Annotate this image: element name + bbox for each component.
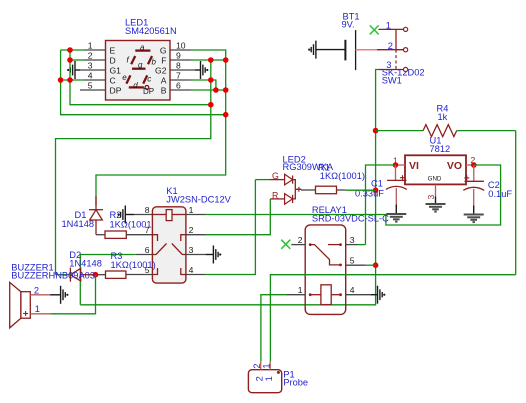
svg-text:2: 2 — [34, 286, 39, 296]
wire LED1 pin7 with jog to pin6 — [191, 80, 216, 90]
ground GND2 (right of LED1 pin8, pointing right) — [195, 61, 208, 79]
svg-text:1k: 1k — [438, 112, 448, 122]
wire left vertical bus x=60.6 — [61, 50, 226, 115]
wire left vertical bus x=70 — [70, 50, 211, 105]
LED2 common — [293, 180, 296, 199]
connector P1 Probe — [248, 361, 308, 392]
ground GND3 (battery minus, pointing left) — [308, 41, 345, 59]
svg-text:a: a — [140, 43, 145, 52]
node RELAY1 pin5 tap — [373, 262, 379, 268]
ground GND10 (right of RELAY1 pin4, pointing right) — [371, 286, 385, 304]
node U1 VO junction — [471, 162, 477, 168]
wire LED2 G stub left — [255, 179, 269, 181]
wire RELAY1 pin5 to rail — [366, 264, 376, 266]
svg-text:2: 2 — [252, 363, 262, 368]
SW1 common bar pins1-2 — [395, 29, 397, 49]
wire R4 right end down to probe net — [515, 131, 517, 275]
SW1 pin 3 — [379, 69, 404, 71]
wire RELAY1 pin1 to probe pin2 — [261, 295, 287, 362]
U1 pin 3 GND — [435, 184, 437, 196]
svg-text:JW2SN-DC12V: JW2SN-DC12V — [166, 195, 231, 205]
LED1 pin 2 D — [84, 50, 116, 65]
svg-text:A: A — [161, 76, 167, 86]
svg-text:5: 5 — [88, 80, 93, 90]
svg-text:9: 9 — [176, 50, 181, 60]
P1 pin 1 — [269, 361, 271, 369]
U1 pin 2 VO — [466, 164, 474, 166]
svg-text:D: D — [110, 56, 116, 66]
segment e — [126, 75, 130, 83]
LED1 pin 10 G — [160, 40, 191, 55]
wire right bus A x=210.8 down to jog — [56, 60, 211, 275]
RELAY1 pin 2 — [291, 244, 305, 246]
svg-text:c: c — [147, 74, 151, 83]
SW1 actuator dashed pins2-3 — [395, 50, 397, 70]
resistor R3 1KΩ(1001) — [96, 251, 156, 279]
wire LED1 pin2 stub join — [70, 59, 85, 61]
svg-text:E: E — [110, 46, 116, 56]
LED1 pin 3 G1 — [80, 60, 121, 75]
resistor R1 1KΩ(1001) — [301, 162, 376, 193]
wire LED1 pin10 to right bus B — [96, 50, 226, 206]
svg-text:VI: VI — [409, 160, 419, 172]
capacitor C1 0.33uF — [355, 165, 407, 214]
wire K1 pin4 up to LED2 G — [206, 180, 256, 275]
K1 coil — [152, 214, 166, 216]
ground GND6 (below C2, pointing down) — [464, 215, 484, 223]
no-connect X at RELAY1 pin 2 — [281, 240, 290, 249]
svg-text:DP: DP — [143, 87, 154, 96]
wire LED1 pin1 to left bus — [61, 49, 85, 51]
node R1 tap — [373, 187, 379, 193]
svg-text:SW1: SW1 — [382, 75, 402, 85]
segment f — [131, 56, 135, 64]
svg-text:9V.: 9V. — [342, 20, 355, 30]
wire LED1 pin4 stub join — [61, 79, 85, 81]
K1 left contact set — [152, 235, 157, 241]
ground GND7 (left of K1 pin8, pointing left) — [117, 206, 134, 224]
svg-text:2: 2 — [388, 41, 393, 51]
resistor R2 1KΩ(1001) — [96, 210, 155, 238]
buzzer pin 2 — [30, 294, 50, 296]
svg-text:8: 8 — [145, 205, 150, 215]
wire SW1 pin3 down the main +9V rail — [80, 70, 378, 305]
svg-text:3: 3 — [350, 235, 355, 245]
node D2/R3/buzzer junction — [93, 272, 99, 278]
ground GND5 (below C1, pointing down) — [386, 214, 406, 222]
svg-text:1: 1 — [261, 363, 271, 368]
svg-text:GND: GND — [428, 176, 442, 183]
K1 pin 1 — [186, 214, 206, 216]
K1 pin 3 — [186, 254, 206, 256]
svg-text:G2: G2 — [155, 66, 167, 76]
segment DP circle — [145, 86, 149, 90]
SW1 pin 2 — [377, 49, 403, 51]
svg-text:4: 4 — [88, 70, 93, 80]
LED1 pin 9 F — [161, 50, 191, 65]
svg-text:1: 1 — [298, 285, 303, 295]
regulator U1 7812 — [393, 136, 476, 204]
svg-text:4: 4 — [350, 285, 355, 295]
RELAY1 pin 1 — [287, 294, 306, 296]
wire K1 pin2 up to LED2 R — [206, 199, 271, 235]
K1 pin 4 — [186, 274, 206, 276]
LED1 pin 8 G2 — [155, 60, 195, 75]
svg-text:3: 3 — [426, 195, 436, 200]
svg-text:4: 4 — [189, 265, 194, 275]
segment d — [129, 86, 144, 88]
svg-text:7: 7 — [176, 70, 181, 80]
svg-text:1KΩ(1001): 1KΩ(1001) — [320, 171, 365, 181]
wire battery plus to SW1 (red wire) — [356, 49, 377, 51]
LED1 pin 1 E — [84, 40, 116, 55]
wire D2 cathode from left bus — [56, 274, 71, 276]
LED1 pin 5 DP — [80, 80, 122, 95]
switch SW1 SK-12D02 — [377, 21, 425, 86]
wire VI to RELAY1 pin3 riser — [366, 165, 396, 245]
svg-text:1: 1 — [189, 205, 194, 215]
svg-text:1: 1 — [386, 21, 391, 31]
wire RELAY1 pin3 to VI riser — [358, 244, 366, 246]
svg-text:2: 2 — [189, 225, 194, 235]
svg-text:C: C — [110, 76, 116, 86]
K1 pin 5 — [126, 274, 152, 276]
LED1 pin 7 A — [161, 70, 191, 85]
no-connect X at SW1 pin 1 — [370, 25, 379, 34]
ground GND9 (right of buzzer pin2, pointing right) — [50, 286, 68, 304]
K1 pin 8 — [134, 214, 152, 216]
capacitor C2 0.1uF — [463, 165, 512, 214]
wire K1 pin1 to VO net (long run with jog under grounds) — [206, 165, 501, 225]
svg-text:2: 2 — [298, 235, 303, 245]
svg-text:d: d — [133, 81, 138, 90]
RELAY1 pin 3 — [346, 244, 358, 246]
ground GND8 (right of K1 pin3, pointing right) — [206, 246, 222, 264]
svg-text:G1: G1 — [110, 66, 122, 76]
svg-text:g: g — [138, 61, 143, 70]
relay RELAY1 SRD-03VDC-SL-C body — [305, 205, 389, 314]
ground GND4 (below U1 pin3, pointing down) — [426, 204, 446, 212]
svg-text:1KΩ(1001): 1KΩ(1001) — [111, 260, 156, 270]
ground GND1 (left of LED1 pin3, pointing left) — [67, 61, 80, 79]
LED1 pin 6 B — [161, 80, 191, 95]
svg-text:10: 10 — [176, 40, 186, 50]
buzzer BUZZER1 — [10, 263, 95, 328]
LED LED2 RG309WKA (dual) — [269, 155, 334, 205]
RELAY1 switch — [309, 243, 312, 246]
svg-text:BUZZERHNB09A03: BUZZERHNB09A03 — [11, 271, 95, 281]
RELAY1 coil — [309, 293, 312, 296]
U1 pin 1 VI — [396, 164, 406, 166]
svg-text:1N4148: 1N4148 — [62, 219, 95, 229]
svg-text:VO: VO — [447, 160, 462, 172]
wire buzzer pin1 riser — [50, 275, 95, 314]
segment g — [132, 68, 146, 70]
svg-text:8: 8 — [176, 60, 181, 70]
svg-text:DP: DP — [110, 86, 122, 96]
svg-text:b: b — [152, 57, 157, 66]
svg-text:B: B — [161, 86, 167, 96]
LED1 seven-segment glyph segment a — [135, 49, 150, 51]
RELAY1 pin 5 — [346, 264, 366, 266]
K1 pin 6 — [136, 254, 153, 256]
svg-text:1: 1 — [88, 40, 93, 50]
svg-text:Probe: Probe — [283, 377, 308, 387]
wire LED1 pin9 — [191, 59, 226, 61]
node junction dots left bus — [67, 47, 73, 53]
svg-text:7812: 7812 — [430, 144, 451, 154]
svg-text:3: 3 — [88, 60, 93, 70]
wire LED1 pin6 — [191, 89, 226, 91]
svg-text:G: G — [160, 46, 167, 56]
segment c — [143, 75, 147, 83]
svg-text:1: 1 — [264, 376, 274, 381]
SW1 pin 1 — [379, 28, 404, 30]
svg-text:5: 5 — [350, 256, 355, 266]
svg-text:7: 7 — [145, 225, 150, 235]
K1 right contact set — [181, 235, 186, 241]
svg-text:6: 6 — [145, 245, 150, 255]
P1 pin 2 — [260, 361, 262, 369]
node junction dots right bus — [208, 57, 214, 63]
RELAY1 pin 4 — [346, 294, 371, 296]
segment b — [148, 56, 152, 64]
svg-text:1N4148: 1N4148 — [69, 258, 102, 268]
diode D1 1N4148 — [62, 196, 104, 235]
svg-text:6: 6 — [176, 80, 181, 90]
svg-text:2: 2 — [255, 376, 265, 381]
battery BT1 9V — [342, 12, 360, 70]
node U1 VI junction — [393, 162, 399, 168]
LED1 pin 4 C — [84, 70, 116, 85]
relay K1 JW2SN-DC12V body — [152, 186, 231, 283]
svg-text:e: e — [122, 73, 127, 82]
K1 pin 2 — [186, 234, 206, 236]
svg-text:SM420561N: SM420561N — [125, 26, 177, 36]
svg-text:C1: C1 — [371, 178, 383, 188]
wire K1 pin6 to D2 anode branch — [80, 255, 136, 305]
segment letter labels — [122, 43, 156, 96]
svg-text:SRD-03VDC-SL-C: SRD-03VDC-SL-C — [312, 214, 389, 224]
svg-text:3: 3 — [189, 245, 194, 255]
svg-text:1: 1 — [35, 304, 40, 314]
svg-text:F: F — [161, 56, 166, 66]
svg-text:3: 3 — [386, 60, 391, 70]
buzzer plus mark — [23, 311, 28, 316]
diode D2 1N4148 — [69, 250, 102, 282]
svg-text:0.1uF: 0.1uF — [488, 189, 512, 199]
wire probe pin1 to R4 net (long run through relay) — [270, 275, 515, 362]
svg-text:2: 2 — [88, 50, 93, 60]
7-segment display U LED1 body — [106, 18, 177, 101]
node R4 tap — [373, 128, 379, 134]
resistor R4 1k — [376, 104, 516, 137]
buzzer pin 1 — [30, 313, 50, 315]
